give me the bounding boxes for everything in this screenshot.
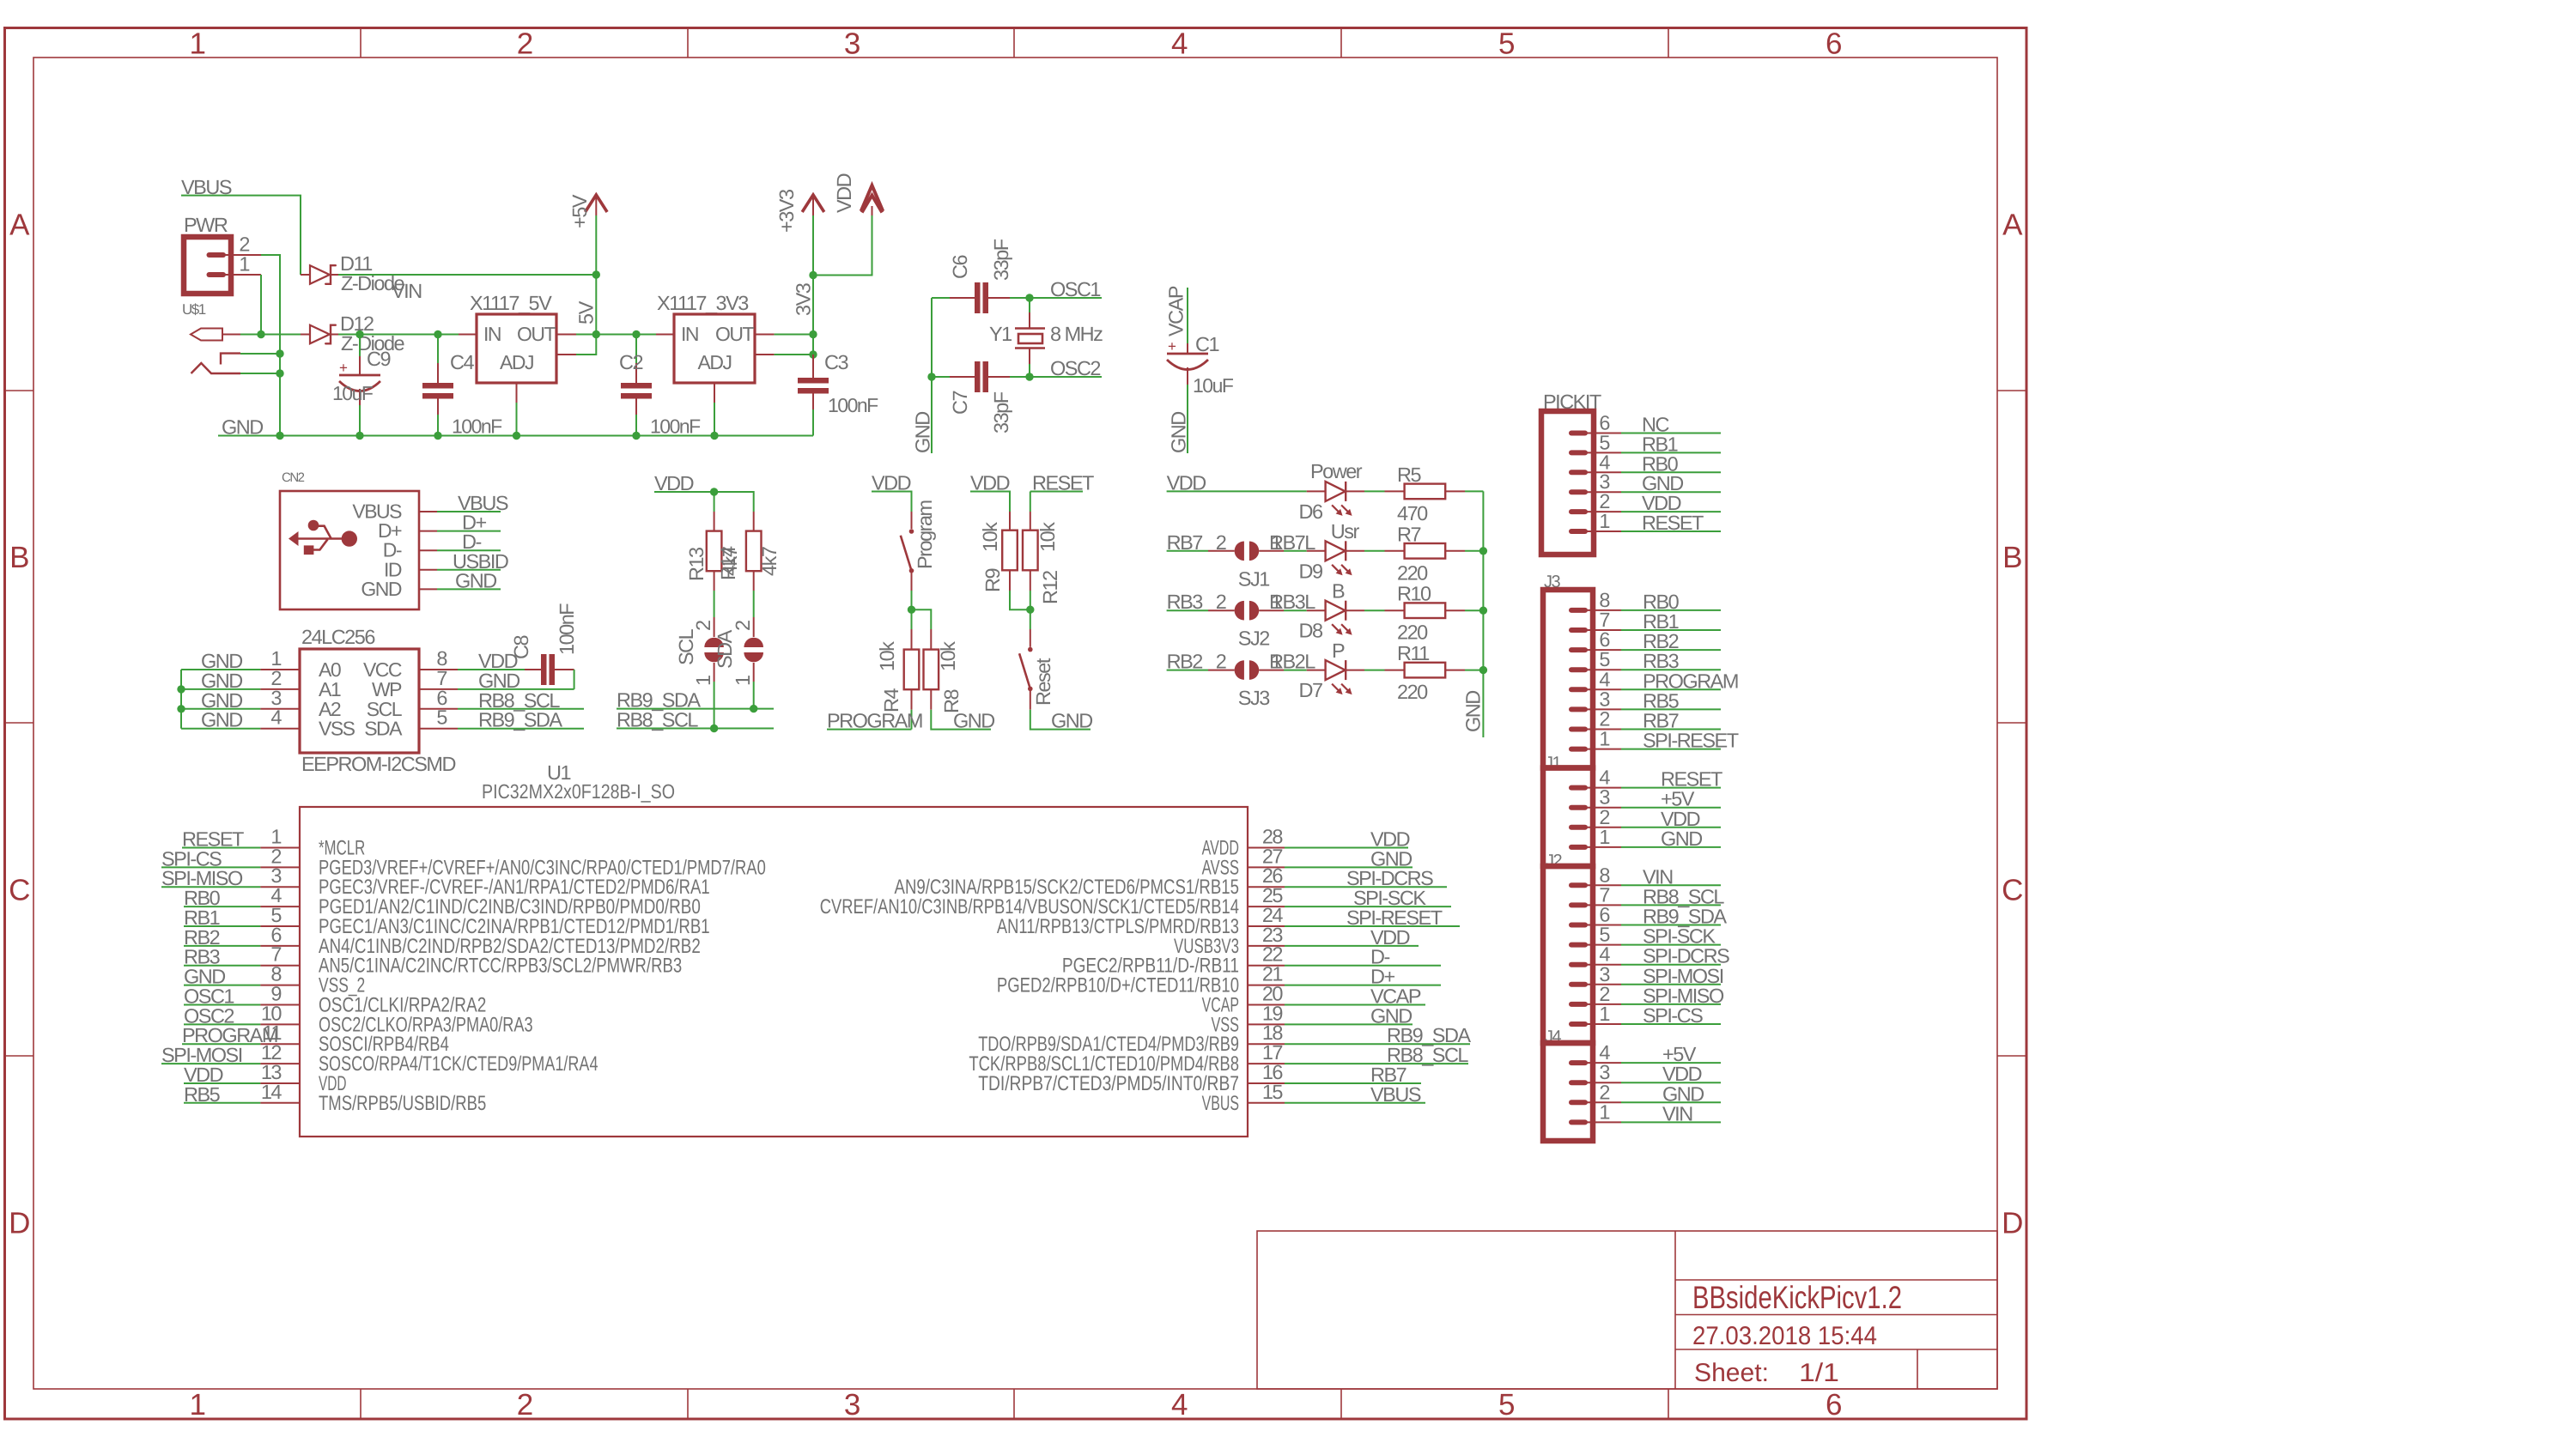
svg-text:BBsideKickPicv1.2: BBsideKickPicv1.2: [1692, 1280, 1902, 1315]
svg-text:Y1: Y1: [989, 323, 1012, 345]
pin line eeprom 1: [260, 669, 300, 670]
svg-text:C4: C4: [450, 351, 474, 373]
wire oscillator left bus: [931, 298, 933, 453]
USB icon: [289, 531, 299, 546]
connector J4 box: [1543, 1043, 1593, 1141]
IC U1 box: [300, 807, 1248, 1137]
svg-text:GND: GND: [222, 416, 263, 439]
wire SPI-DCRS U1 right: [1285, 886, 1447, 888]
svg-text:SDA: SDA: [714, 629, 736, 669]
frame column dividers bottom band: [360, 1389, 361, 1419]
pin line X1117_5V ADJ: [516, 383, 518, 403]
wire SPI-RESET U1 right: [1285, 925, 1460, 927]
svg-text:R7: R7: [1397, 523, 1420, 545]
pin line U1 14: [260, 1102, 300, 1104]
svg-text:+3V3: +3V3: [775, 189, 798, 233]
pin stub J3 5: [1571, 667, 1585, 672]
svg-text:2: 2: [1216, 591, 1226, 613]
pin line J2 6: [1585, 925, 1621, 926]
pin line eeprom 2: [260, 688, 300, 690]
LED D8: [1307, 609, 1326, 611]
svg-text:R10: R10: [1397, 583, 1431, 605]
solder jumper SJ SDA: [753, 591, 755, 617]
wire SPI-MOSI U1: [161, 1063, 260, 1064]
svg-text:U$1: U$1: [182, 301, 206, 318]
wire X1117_3V3 OUT2 up: [775, 335, 813, 355]
svg-text:Program: Program: [914, 500, 936, 569]
svg-text:X1117_3V3: X1117_3V3: [657, 292, 749, 314]
svg-text:GND: GND: [361, 578, 402, 600]
wire J2 SPI-DCRS: [1621, 964, 1721, 966]
wire RB8_SCL: [617, 728, 774, 730]
pin line J2 5: [1585, 944, 1621, 946]
junction OSC2: [1025, 373, 1033, 380]
pin line U1 21: [1248, 985, 1285, 986]
svg-text:D: D: [9, 1207, 29, 1240]
svg-text:2: 2: [517, 1388, 532, 1422]
junction C4 bottom GND: [434, 432, 441, 440]
pin line U1 3: [260, 886, 300, 888]
svg-text:SOSCO/RPA4/T1CK/CTED9/PMA1/RA4: SOSCO/RPA4/T1CK/CTED9/PMA1/RA4: [319, 1052, 598, 1076]
connector J1 box: [1543, 768, 1593, 867]
pin line J3 4: [1585, 688, 1621, 690]
wire R10 to GND rail: [1465, 609, 1483, 611]
junction eeprom gnd 2: [177, 685, 185, 693]
wire 3V3 rail up: [812, 215, 814, 335]
wire VDD U1 right: [1285, 847, 1408, 849]
wire PICKIT NC: [1621, 433, 1721, 434]
svg-text:14: 14: [261, 1081, 283, 1103]
svg-text:SJ2: SJ2: [1238, 627, 1269, 650]
wire OSC1: [1030, 297, 1102, 299]
wire OSC2 U1: [184, 1023, 260, 1025]
wire PROGRAM: [827, 729, 912, 731]
svg-text:GND: GND: [1168, 412, 1190, 453]
wire RB8_SCL U1 right: [1285, 1063, 1468, 1064]
svg-text:Sheet:: Sheet:: [1694, 1359, 1769, 1387]
pin line U1 11: [260, 1043, 300, 1045]
svg-text:D7: D7: [1299, 679, 1322, 701]
svg-text:R14: R14: [717, 546, 739, 580]
pin line J3 3: [1585, 708, 1621, 710]
connector J2 box: [1543, 866, 1593, 1043]
svg-text:D9: D9: [1299, 560, 1322, 582]
wire RB3L: [1284, 609, 1307, 611]
pin line CN2 ID: [419, 569, 437, 571]
pin stub J4 4: [1571, 1060, 1585, 1065]
junction 3V3/VDD branch: [809, 271, 817, 279]
svg-text:4: 4: [1171, 1388, 1188, 1422]
wire J4 GND: [1621, 1101, 1721, 1103]
pin stub J3 6: [1571, 647, 1585, 652]
pin line J3 5: [1585, 669, 1621, 670]
pin line J1 1: [1585, 846, 1621, 848]
svg-text:OUT: OUT: [517, 323, 556, 345]
svg-text:X1117_5V: X1117_5V: [470, 292, 552, 314]
pin line U1 15: [1248, 1102, 1285, 1104]
resistor R13 4k7: [714, 492, 715, 512]
wire X1117_5V OUT2 up: [576, 335, 596, 355]
junction 3V3 output: [809, 330, 817, 338]
pin line U1 5: [260, 925, 300, 927]
svg-text:15: 15: [1262, 1081, 1284, 1103]
pin stub J3 8: [1571, 608, 1585, 613]
pin stub J1 1: [1571, 845, 1585, 850]
crystal Y1 8 MHz: [1029, 298, 1030, 312]
pin line U1 10: [260, 1023, 300, 1025]
wire RB0 U1: [184, 906, 260, 907]
pin line X1117_3V3 OUT2: [755, 354, 775, 355]
svg-text:AN5/C1INA/C2INC/RTCC/RPB3/SCL2: AN5/C1INA/C2INC/RTCC/RPB3/SCL2/PMWR/RB3: [319, 955, 682, 978]
wire RB8_SCL eeprom: [458, 708, 584, 710]
svg-text:4: 4: [1599, 767, 1610, 789]
pin line CN2 D+: [419, 530, 437, 532]
drawing frame inner border: [33, 58, 1997, 1389]
svg-text:C3: C3: [824, 351, 848, 373]
svg-text:4k7: 4k7: [758, 547, 781, 576]
wire GND eeprom 1: [181, 669, 260, 670]
pin stub PICKIT 1: [1571, 529, 1585, 534]
svg-text:10uF: 10uF: [1193, 374, 1234, 397]
junction ADJ2 GND: [710, 432, 718, 440]
wire PICKIT GND: [1621, 491, 1721, 493]
pin line PICKIT 5: [1585, 452, 1621, 453]
pin line CN2 GND: [419, 588, 437, 590]
svg-text:+: +: [1168, 338, 1176, 355]
wire VCAP: [1187, 288, 1188, 343]
pin stub J2 7: [1571, 902, 1585, 907]
junction OSC1: [1025, 294, 1033, 301]
wire RB2 to jumper SJ3: [1167, 670, 1208, 671]
svg-text:8: 8: [1599, 589, 1610, 611]
wire D11 cathode to +5V rail: [338, 274, 596, 276]
wire LED GND rail vertical: [1482, 491, 1484, 737]
wire RB3 U1: [184, 965, 260, 967]
junction LED GND rail: [1479, 607, 1487, 615]
svg-text:1: 1: [1599, 510, 1609, 532]
pin line U1 24: [1248, 925, 1285, 927]
wire J4 VDD: [1621, 1082, 1721, 1083]
junction jack sleeve: [276, 369, 283, 377]
capacitor C2 100nF: [596, 334, 656, 336]
pin line X1117_5V OUT2: [556, 354, 576, 355]
svg-text:IN: IN: [483, 323, 501, 345]
wire VDD to pullups: [654, 492, 754, 512]
wire X1117_5V ADJ to GND: [516, 403, 518, 436]
junction +5V output: [592, 330, 600, 338]
svg-text:D: D: [2002, 1207, 2022, 1240]
junction R14 bottom: [750, 705, 757, 712]
pin stub J2 1: [1571, 1022, 1585, 1027]
svg-text:6: 6: [1826, 1388, 1841, 1422]
pin line U1 8: [260, 985, 300, 986]
svg-text:33pF: 33pF: [990, 239, 1012, 281]
wire J2 RB9_SDA: [1621, 925, 1721, 926]
junction program divider: [908, 606, 915, 614]
pin line U1 1: [260, 847, 300, 849]
pin line J2 1: [1585, 1023, 1621, 1025]
svg-text:4: 4: [1599, 943, 1610, 966]
wire D12 cathode to regulator input: [338, 334, 459, 336]
svg-text:B: B: [2002, 541, 2021, 574]
resistor R7 220: [1364, 550, 1385, 552]
pin line U1 22: [1248, 965, 1285, 967]
svg-text:R11: R11: [1397, 642, 1429, 664]
pin stub J4 2: [1571, 1100, 1585, 1105]
wire U$1 bracket pin: [240, 353, 280, 355]
junction LED GND rail: [1479, 666, 1487, 674]
wire X1117_3V3 OUT to 3V3: [775, 334, 813, 336]
capacitor C9 10uF (polarized): [359, 335, 361, 357]
svg-text:1: 1: [190, 27, 205, 61]
resistor R11 220: [1364, 670, 1385, 671]
diode D12 (Z-Diode): [261, 334, 301, 336]
svg-text:4: 4: [1171, 27, 1188, 61]
pin line eeprom 3: [260, 708, 300, 710]
capacitor C4 100nF: [437, 335, 439, 364]
pin line J3 7: [1585, 629, 1621, 631]
svg-text:33pF: 33pF: [990, 391, 1012, 433]
junction osc bus / C7: [927, 373, 935, 380]
power symbol +3V3 arrow: [812, 195, 814, 215]
pin line J2 2: [1585, 1003, 1621, 1005]
pin line U1 26: [1248, 886, 1285, 888]
svg-text:C1: C1: [1195, 333, 1218, 355]
wire RB9_SDA: [617, 708, 774, 710]
svg-text:D6: D6: [1299, 500, 1323, 523]
wire GND U1 right: [1285, 866, 1413, 868]
svg-text:VCAP: VCAP: [1165, 286, 1188, 336]
svg-text:24LC256: 24LC256: [301, 626, 375, 648]
pin stub PICKIT 5: [1571, 450, 1585, 455]
wire OSC2: [1030, 376, 1102, 378]
pin line J3 2: [1585, 729, 1621, 731]
frame column dividers top band: [360, 28, 361, 58]
wire GND U1 right: [1285, 1023, 1413, 1025]
pin line U1 18: [1248, 1043, 1285, 1045]
svg-text:SJ1: SJ1: [1238, 567, 1269, 590]
solder jumper SJ2: [1208, 609, 1235, 611]
svg-text:1: 1: [1599, 1100, 1609, 1123]
pin line U1 4: [260, 906, 300, 907]
junction R13 bottom: [710, 724, 718, 732]
svg-text:2: 2: [1216, 651, 1226, 673]
svg-text:4: 4: [1599, 668, 1610, 690]
junction C4 top: [434, 330, 441, 338]
capacitor C6 33pF: [932, 297, 950, 299]
wire J3 SPI-RESET: [1621, 749, 1721, 750]
svg-text:3: 3: [1599, 963, 1610, 985]
pin stub PICKIT 2: [1571, 509, 1585, 514]
pin line eeprom 5: [419, 728, 458, 730]
pin stub J4 1: [1571, 1119, 1585, 1125]
svg-text:C: C: [9, 874, 29, 907]
svg-text:10k: 10k: [937, 641, 959, 671]
svg-text:7: 7: [1599, 609, 1609, 631]
junction LED GND rail: [1479, 547, 1487, 555]
pin line U1 6: [260, 945, 300, 947]
wire PICKIT VDD: [1621, 511, 1721, 512]
pin line PWR 2: [223, 254, 261, 256]
wire SPI-SCK U1 right: [1285, 906, 1451, 907]
wire X1117_5V OUT to +5V: [576, 334, 596, 336]
svg-text:7: 7: [1599, 883, 1609, 906]
svg-text:5: 5: [436, 706, 447, 729]
wire RB7 to jumper SJ1: [1167, 550, 1208, 552]
wire R7 to GND rail: [1465, 550, 1483, 552]
pin stub J3 3: [1571, 706, 1585, 712]
svg-text:R9: R9: [981, 569, 1004, 592]
pin stub J3 7: [1571, 627, 1585, 633]
solder jumper SJ1: [1208, 550, 1235, 552]
svg-text:100nF: 100nF: [650, 415, 701, 438]
capacitor C3 100nF: [812, 355, 814, 378]
wire J3 RB0: [1621, 609, 1721, 611]
svg-text:100nF: 100nF: [556, 603, 578, 655]
pin line X1117_3V3 OUT: [755, 334, 775, 336]
wire GND eeprom 4: [181, 728, 260, 730]
pin line J3 8: [1585, 609, 1621, 611]
svg-text:TDI/RPB7/CTED3/PMD5/INT0/RB7: TDI/RPB7/CTED3/PMD5/INT0/RB7: [978, 1072, 1239, 1095]
wire J4 +5V: [1621, 1062, 1721, 1064]
pin line J4 4: [1585, 1062, 1621, 1064]
pin line J2 7: [1585, 904, 1621, 906]
junction C9 bottom GND: [355, 432, 363, 440]
pin line U1 13: [260, 1082, 300, 1084]
wire RB9_SDA eeprom: [458, 728, 584, 730]
LED D9: [1307, 550, 1326, 552]
pin line X1117_3V3 ADJ: [714, 383, 715, 403]
pin line PICKIT 2: [1585, 511, 1621, 512]
pin stub J2 6: [1571, 923, 1585, 928]
wire VDD to D6: [1167, 490, 1307, 492]
wire PICKIT RB0: [1621, 471, 1721, 473]
wire J4 VIN: [1621, 1121, 1721, 1123]
pin line J3 1: [1585, 749, 1621, 750]
svg-text:ADJ: ADJ: [500, 351, 533, 373]
pin stub J2 5: [1571, 943, 1585, 948]
wire VBUS: [437, 511, 501, 512]
svg-text:SJ3: SJ3: [1238, 687, 1270, 709]
svg-text:VDD: VDD: [833, 173, 855, 213]
wire J1 VDD: [1621, 827, 1721, 828]
wire RB1 U1: [184, 925, 260, 927]
wire D+: [437, 530, 501, 532]
capacitor C7 33pF: [932, 376, 950, 378]
junction eeprom gnd 3: [177, 705, 185, 712]
pin line PICKIT 4: [1585, 471, 1621, 473]
pin line U1 23: [1248, 945, 1285, 947]
pin line J1 2: [1585, 827, 1621, 828]
pin line eeprom 4: [260, 728, 300, 730]
pin line U1 25: [1248, 906, 1285, 907]
pin stub J1 3: [1571, 805, 1585, 810]
svg-text:1: 1: [1599, 1003, 1609, 1025]
svg-text:GND: GND: [1462, 691, 1485, 732]
pin stub J2 3: [1571, 982, 1585, 987]
svg-text:6: 6: [1599, 628, 1610, 651]
svg-text:C6: C6: [949, 255, 971, 279]
junction +5V / D11: [592, 270, 600, 278]
pin stub PWR 1: [210, 272, 224, 277]
svg-text:1: 1: [190, 1388, 205, 1422]
resistor R10 220: [1364, 609, 1385, 611]
pin stub J3 1: [1571, 747, 1585, 752]
svg-text:4: 4: [1599, 1041, 1610, 1064]
pin stub J2 8: [1571, 882, 1585, 888]
wire VDD to Program switch: [872, 492, 912, 512]
wire J2 SPI-SCK: [1621, 944, 1721, 946]
pin line eeprom 6: [419, 708, 458, 710]
wire GND eeprom 2: [181, 688, 260, 690]
svg-text:5: 5: [1599, 924, 1610, 946]
pin line CN2 VBUS: [419, 511, 437, 512]
svg-text:2: 2: [732, 621, 754, 631]
svg-text:2: 2: [1599, 983, 1609, 1005]
frame row dividers right band: [1997, 390, 2026, 391]
switch Program: [911, 512, 913, 529]
svg-text:100nF: 100nF: [828, 394, 878, 416]
wire R11 to GND rail: [1465, 670, 1483, 671]
pin line J4 3: [1585, 1082, 1621, 1083]
U$1 bracket pin: [221, 354, 240, 365]
wire RESET to R12: [1030, 491, 1083, 493]
wire VDD branch: [813, 215, 872, 276]
pin line CN2 D-: [419, 549, 437, 551]
wire RESET U1: [182, 847, 260, 849]
pin line U1 19: [1248, 1023, 1285, 1025]
U$1 center pin (arrow): [191, 329, 222, 341]
pin line J4 1: [1585, 1121, 1621, 1123]
IC EEPROM-I2CSMD box: [300, 649, 419, 753]
svg-text:1/1: 1/1: [1799, 1359, 1839, 1387]
power symbol VDD arrow (double chevron): [872, 206, 873, 215]
svg-text:OUT: OUT: [715, 323, 755, 345]
svg-text:C9: C9: [367, 348, 390, 370]
wire D+ U1 right: [1285, 985, 1441, 986]
wire J3 RB5: [1621, 708, 1721, 710]
svg-text:CN2: CN2: [282, 470, 305, 485]
pin stub J3 2: [1571, 727, 1585, 732]
LED D6: [1307, 490, 1326, 492]
svg-text:A: A: [2002, 209, 2023, 242]
svg-text:100nF: 100nF: [452, 415, 502, 438]
wire GND: [437, 588, 501, 590]
junction C2 bottom GND: [632, 432, 640, 440]
junction jack bracket: [276, 349, 283, 357]
svg-text:PWR: PWR: [184, 214, 228, 236]
svg-text:2: 2: [1599, 806, 1609, 828]
svg-text:220: 220: [1397, 681, 1428, 703]
wire J2 SPI-MISO: [1621, 1003, 1721, 1005]
pin line J4 2: [1585, 1101, 1621, 1103]
wire J1 +5V: [1621, 807, 1721, 809]
svg-text:3: 3: [844, 27, 860, 61]
svg-text:220: 220: [1397, 621, 1428, 644]
svg-text:VIN: VIN: [392, 280, 422, 302]
svg-text:470: 470: [1397, 502, 1428, 524]
wire J3 RB2: [1621, 649, 1721, 651]
wire J3 RB7: [1621, 729, 1721, 731]
pin line U1 12: [260, 1063, 300, 1064]
wire 5V vertical: [595, 275, 597, 335]
svg-text:+: +: [339, 360, 348, 376]
wire PICKIT RB1: [1621, 452, 1721, 453]
solder jumper SJ3: [1208, 670, 1235, 671]
pin line J2 3: [1585, 984, 1621, 985]
junction PWR pin1 / VIN: [257, 330, 264, 338]
svg-text:GND: GND: [953, 710, 994, 732]
